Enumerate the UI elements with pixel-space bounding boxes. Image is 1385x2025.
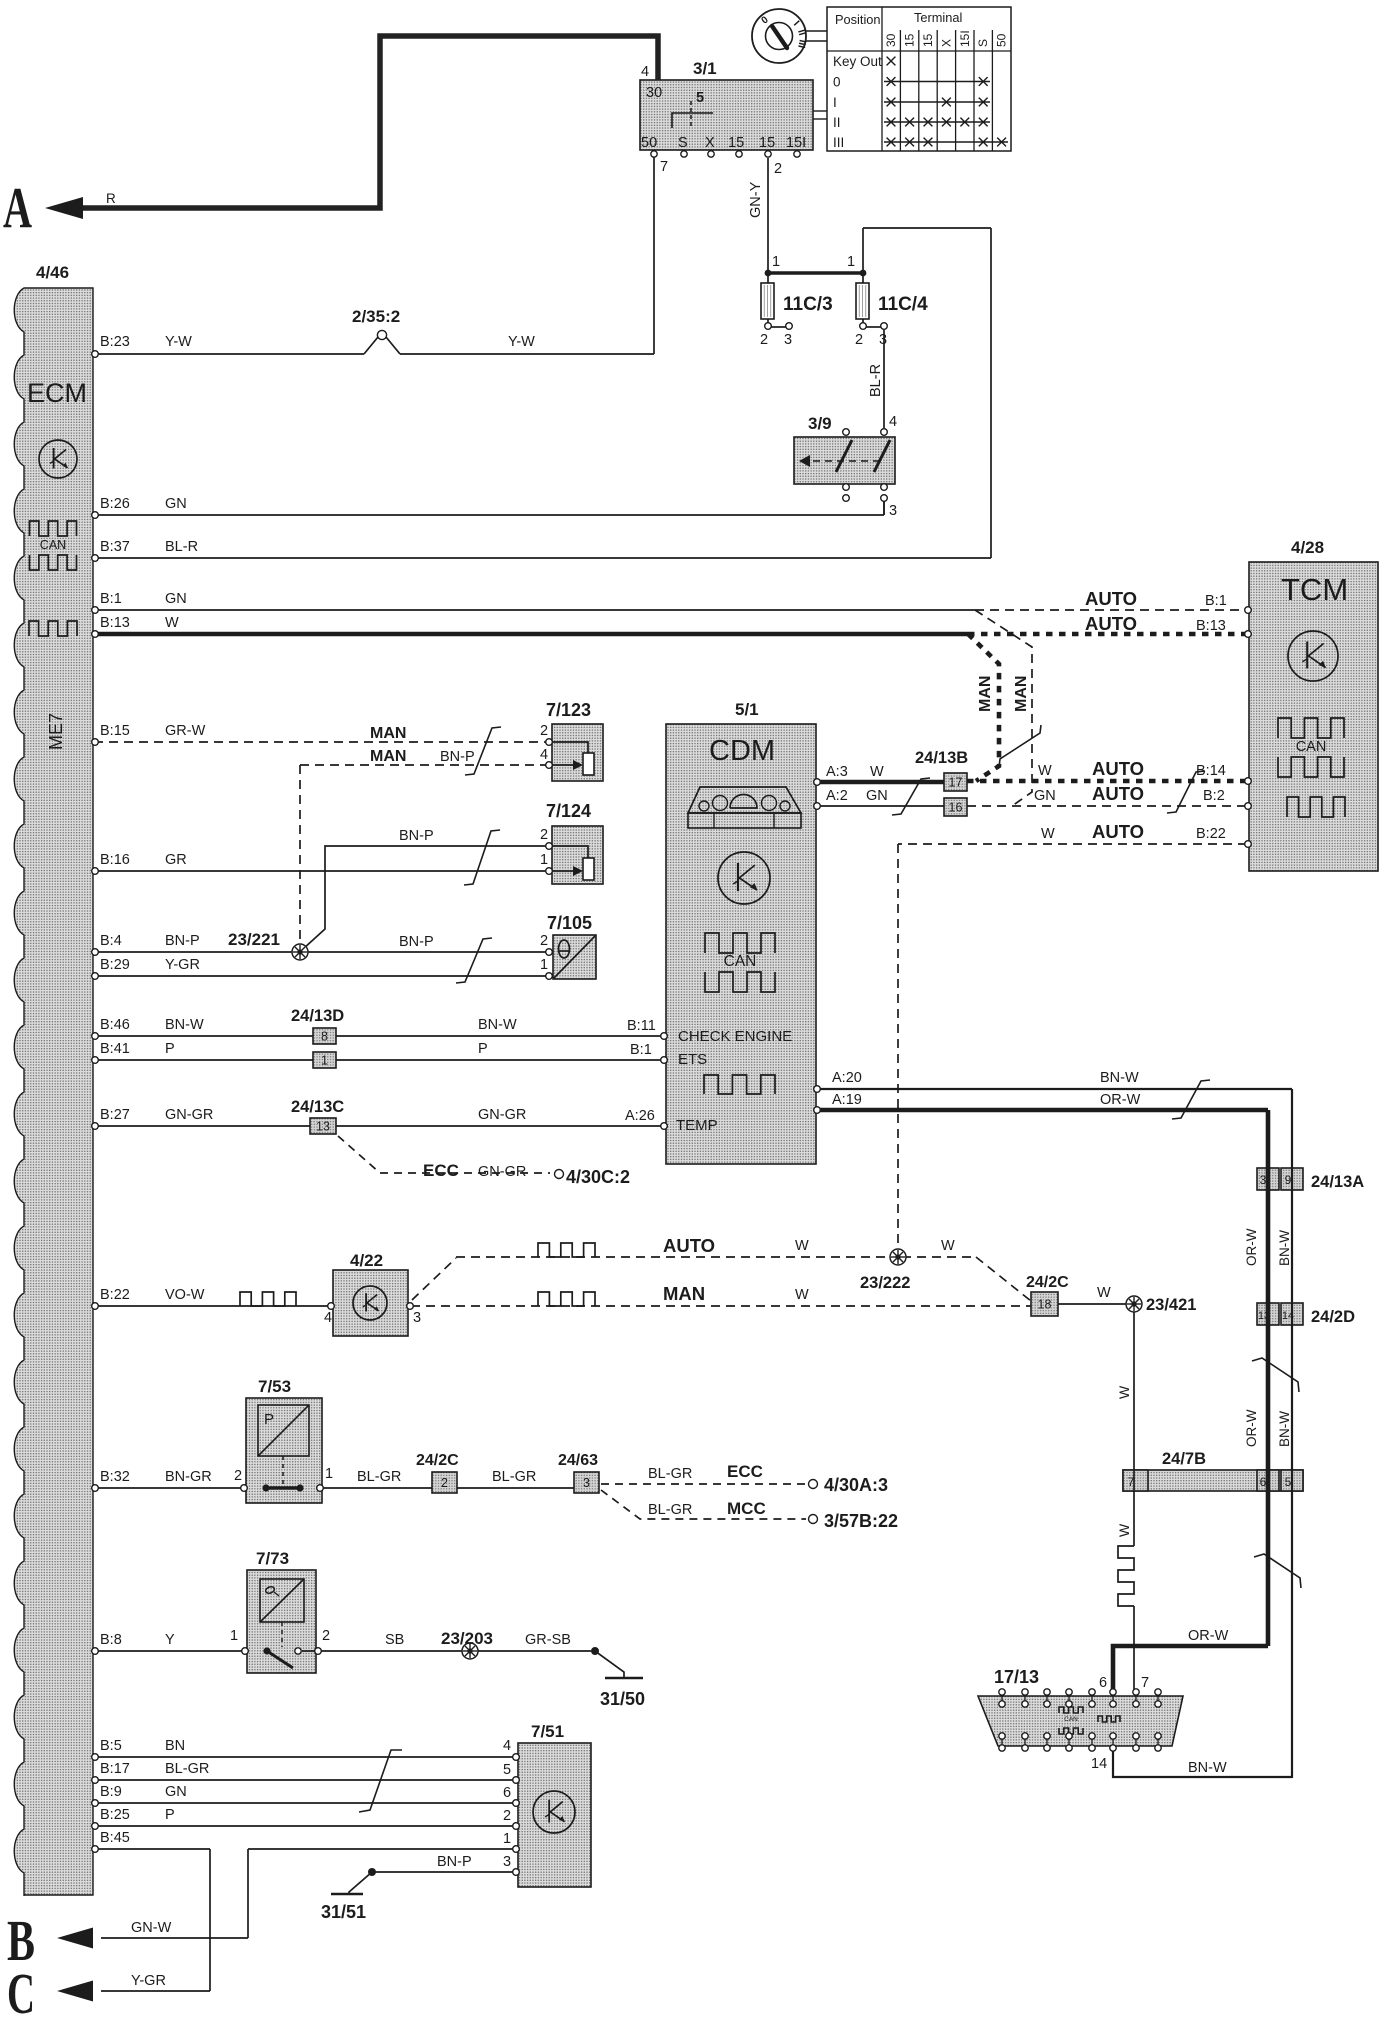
svg-text:50: 50 [995,33,1009,47]
svg-text:5: 5 [1285,1475,1292,1489]
svg-text:B:25: B:25 [100,1807,130,1823]
svg-text:ECC: ECC [727,1462,763,1481]
svg-text:24/13C: 24/13C [291,1098,344,1116]
svg-text:15: 15 [759,135,775,151]
svg-text:1: 1 [847,254,855,270]
svg-text:2/35:2: 2/35:2 [352,307,400,326]
svg-text:CAN: CAN [40,538,66,552]
svg-text:1: 1 [325,1466,333,1482]
svg-text:24/2C: 24/2C [416,1452,459,1469]
svg-text:B:16: B:16 [100,852,130,868]
svg-text:3: 3 [784,332,792,348]
svg-text:B:14: B:14 [1196,763,1226,779]
svg-text:BL-GR: BL-GR [648,1466,692,1482]
svg-text:BN: BN [165,1738,185,1754]
svg-text:GN-W: GN-W [131,1920,172,1936]
svg-text:4: 4 [889,414,897,430]
svg-text:3: 3 [879,332,887,348]
svg-text:4/46: 4/46 [36,263,69,282]
svg-text:4: 4 [641,64,649,80]
svg-text:15: 15 [921,33,935,47]
svg-text:6: 6 [1260,1475,1267,1489]
svg-text:AUTO: AUTO [1085,588,1137,609]
svg-text:W: W [165,615,179,631]
svg-text:B:46: B:46 [100,1017,130,1033]
svg-text:B:5: B:5 [100,1738,122,1754]
svg-text:B:32: B:32 [100,1469,130,1485]
svg-text:17: 17 [949,776,963,790]
svg-text:GR-W: GR-W [165,723,206,739]
svg-text:CAN: CAN [1296,739,1327,755]
svg-text:24/2D: 24/2D [1311,1308,1355,1326]
svg-text:S: S [678,135,688,151]
svg-text:SB: SB [385,1632,404,1648]
svg-text:24/13A: 24/13A [1311,1173,1364,1191]
svg-text:5: 5 [696,90,704,106]
svg-text:7: 7 [660,159,668,175]
svg-text:GN: GN [165,1784,187,1800]
svg-text:Y-GR: Y-GR [165,957,200,973]
svg-text:31/51: 31/51 [321,1902,366,1922]
svg-text:BN-W: BN-W [165,1017,204,1033]
svg-text:16: 16 [949,801,963,815]
svg-text:7/123: 7/123 [546,700,591,720]
svg-text:Key Out: Key Out [833,54,882,69]
svg-text:4/30A:3: 4/30A:3 [824,1475,888,1495]
svg-text:31/50: 31/50 [600,1689,645,1709]
svg-text:TCM: TCM [1281,572,1348,607]
svg-text:ME7: ME7 [46,713,66,750]
svg-text:MAN: MAN [370,725,406,742]
svg-text:B:1: B:1 [630,1042,652,1058]
svg-text:3/57B:22: 3/57B:22 [824,1511,898,1531]
svg-text:B:15: B:15 [100,723,130,739]
svg-text:GN-GR: GN-GR [478,1164,526,1180]
svg-text:7: 7 [1128,1475,1135,1489]
svg-text:7: 7 [1141,1675,1149,1691]
svg-text:4: 4 [540,747,548,763]
svg-text:B:1: B:1 [1205,593,1227,609]
svg-text:Position: Position [835,12,881,27]
svg-text:1: 1 [321,1054,328,1068]
svg-text:BN-W: BN-W [1277,1230,1292,1266]
svg-text:W: W [1097,1285,1111,1301]
svg-text:3: 3 [889,503,897,519]
svg-text:0: 0 [833,75,841,90]
svg-text:GR: GR [165,852,187,868]
svg-text:B:4: B:4 [100,933,122,949]
svg-text:R: R [106,191,116,206]
svg-text:W: W [941,1238,955,1254]
svg-text:B:27: B:27 [100,1107,130,1123]
svg-text:4: 4 [324,1310,332,1326]
svg-text:BN-P: BN-P [440,749,475,765]
svg-text:7/73: 7/73 [256,1549,289,1568]
svg-text:AUTO: AUTO [1092,821,1144,842]
svg-text:Y-GR: Y-GR [131,1973,166,1989]
svg-text:7/53: 7/53 [258,1377,291,1396]
svg-text:23/421: 23/421 [1146,1296,1196,1314]
svg-text:GR-SB: GR-SB [525,1632,571,1648]
svg-text:4: 4 [503,1738,511,1754]
svg-text:A: A [3,175,32,240]
svg-text:14: 14 [1282,1310,1294,1322]
svg-text:2: 2 [322,1628,330,1644]
svg-text:1: 1 [230,1628,238,1644]
svg-text:GN-GR: GN-GR [478,1107,526,1123]
svg-text:BL-R: BL-R [868,364,884,397]
svg-text:ETS: ETS [678,1051,707,1068]
svg-text:13: 13 [316,1120,330,1134]
svg-text:3: 3 [1260,1173,1267,1187]
svg-text:BN-W: BN-W [1100,1070,1139,1086]
svg-text:B:23: B:23 [100,334,130,350]
svg-text:BN-W: BN-W [1188,1760,1227,1776]
svg-text:B:13: B:13 [100,615,130,631]
svg-text:2: 2 [540,827,548,843]
svg-text:BN-P: BN-P [399,828,434,844]
svg-text:ECC: ECC [423,1161,459,1180]
svg-text:24/63: 24/63 [558,1452,598,1469]
svg-text:B:41: B:41 [100,1041,130,1057]
svg-text:OR-W: OR-W [1188,1628,1229,1644]
svg-text:1: 1 [540,852,548,868]
svg-text:15I: 15I [786,135,806,151]
svg-text:B:9: B:9 [100,1784,122,1800]
svg-text:30: 30 [884,33,898,47]
svg-text:7/51: 7/51 [531,1722,564,1741]
svg-text:AUTO: AUTO [663,1235,715,1256]
svg-text:BL-R: BL-R [165,539,198,555]
svg-text:23/222: 23/222 [860,1274,910,1292]
svg-text:X: X [939,39,953,47]
svg-text:BL-GR: BL-GR [648,1502,692,1518]
svg-text:24/2C: 24/2C [1026,1274,1069,1291]
svg-text:III: III [833,135,844,150]
svg-text:1: 1 [540,957,548,973]
svg-text:AUTO: AUTO [1085,613,1137,634]
svg-text:BN-P: BN-P [399,934,434,950]
svg-text:CDM: CDM [709,735,775,767]
svg-text:X: X [705,135,715,151]
svg-text:24/13B: 24/13B [915,749,968,767]
svg-text:18: 18 [1038,1298,1052,1312]
svg-text:OR-W: OR-W [1244,1409,1259,1447]
svg-text:BN-W: BN-W [478,1017,517,1033]
svg-text:P: P [478,1041,488,1057]
svg-text:B:26: B:26 [100,496,130,512]
svg-text:7/105: 7/105 [547,913,592,933]
svg-text:W: W [870,764,884,780]
svg-text:7/124: 7/124 [546,801,591,821]
svg-text:B:1: B:1 [100,591,122,607]
svg-text:1: 1 [772,254,780,270]
svg-text:13: 13 [1258,1310,1270,1322]
svg-text:8: 8 [321,1030,328,1044]
svg-text:15: 15 [903,33,917,47]
svg-text:1: 1 [503,1831,511,1847]
svg-text:BL-GR: BL-GR [357,1469,401,1485]
svg-text:AUTO: AUTO [1092,758,1144,779]
svg-text:Y: Y [165,1632,175,1648]
svg-text:2: 2 [441,1476,448,1490]
svg-text:P: P [165,1041,175,1057]
svg-text:15I: 15I [958,30,972,47]
svg-text:B:17: B:17 [100,1761,130,1777]
svg-text:MAN: MAN [370,748,406,765]
svg-text:BN-GR: BN-GR [165,1469,212,1485]
svg-text:14: 14 [1091,1756,1107,1772]
svg-text:GN: GN [165,591,187,607]
svg-text:W: W [795,1287,809,1303]
svg-text:24/7B: 24/7B [1162,1450,1206,1468]
svg-text:2: 2 [540,723,548,739]
svg-text:24/13D: 24/13D [291,1007,344,1025]
svg-text:B:13: B:13 [1196,618,1226,634]
svg-text:4/28: 4/28 [1291,538,1324,557]
svg-text:A:3: A:3 [826,764,848,780]
svg-text:Y-W: Y-W [508,334,535,350]
svg-text:B:2: B:2 [1203,788,1225,804]
svg-text:C: C [7,1961,35,2020]
svg-text:CHECK ENGINE: CHECK ENGINE [678,1028,792,1045]
svg-text:3: 3 [413,1310,421,1326]
svg-text:BN-P: BN-P [165,933,200,949]
svg-text:B:8: B:8 [100,1632,122,1648]
svg-text:A:2: A:2 [826,788,848,804]
svg-text:MCC: MCC [727,1499,766,1518]
svg-text:VO-W: VO-W [165,1287,205,1303]
svg-text:11C/3: 11C/3 [783,294,833,315]
svg-text:5: 5 [503,1762,511,1778]
svg-text:B:37: B:37 [100,539,130,555]
svg-text:30: 30 [646,85,662,101]
svg-text:2: 2 [774,161,782,177]
svg-text:B:45: B:45 [100,1830,130,1846]
svg-text:BL-GR: BL-GR [492,1469,536,1485]
svg-text:6: 6 [503,1785,511,1801]
svg-text:W: W [1116,1523,1132,1537]
svg-text:17/13: 17/13 [994,1667,1039,1687]
svg-text:W: W [1116,1385,1132,1399]
svg-text:15: 15 [728,135,744,151]
svg-text:50: 50 [641,135,657,151]
svg-text:B:29: B:29 [100,957,130,973]
svg-text:MAN: MAN [1013,676,1030,712]
svg-text:MAN: MAN [663,1283,705,1304]
svg-text:BN-P: BN-P [437,1854,472,1870]
svg-text:3/1: 3/1 [693,59,717,78]
svg-text:3/9: 3/9 [808,414,832,433]
svg-text:W: W [1041,826,1055,842]
svg-text:5/1: 5/1 [735,700,759,719]
svg-text:CAN: CAN [1064,1716,1078,1723]
svg-text:W: W [1038,763,1052,779]
svg-text:4/22: 4/22 [350,1251,383,1270]
svg-text:6: 6 [1099,1675,1107,1691]
svg-text:AUTO: AUTO [1092,783,1144,804]
svg-text:II: II [833,115,841,130]
svg-text:Y-W: Y-W [165,334,192,350]
svg-text:BL-GR: BL-GR [165,1761,209,1777]
svg-text:3: 3 [503,1854,511,1870]
svg-text:A:20: A:20 [832,1070,862,1086]
svg-text:B:11: B:11 [627,1018,656,1034]
svg-text:23/203: 23/203 [441,1629,493,1648]
svg-text:2: 2 [855,332,863,348]
svg-text:GN-Y: GN-Y [748,181,764,218]
svg-text:OR-W: OR-W [1100,1092,1141,1108]
svg-text:4/30C:2: 4/30C:2 [566,1167,630,1187]
svg-text:CAN: CAN [724,953,757,970]
svg-text:GN-GR: GN-GR [165,1107,213,1123]
svg-text:P: P [264,1411,274,1428]
svg-text:W: W [795,1238,809,1254]
svg-text:GN: GN [866,788,888,804]
svg-text:GN: GN [165,496,187,512]
svg-text:11C/4: 11C/4 [878,294,928,315]
svg-text:Terminal: Terminal [914,10,962,25]
svg-text:ECM: ECM [27,378,87,408]
svg-text:S: S [976,39,990,47]
svg-text:2: 2 [503,1808,511,1824]
svg-text:GN: GN [1034,788,1056,804]
svg-text:2: 2 [234,1468,242,1484]
svg-text:A:19: A:19 [832,1092,862,1108]
svg-text:P: P [165,1807,175,1823]
svg-text:2: 2 [760,332,768,348]
svg-text:BN-W: BN-W [1277,1411,1292,1447]
svg-text:2: 2 [540,933,548,949]
svg-text:MAN: MAN [977,676,994,712]
svg-text:B:22: B:22 [1196,826,1226,842]
svg-text:9: 9 [1285,1173,1292,1187]
svg-text:3: 3 [583,1476,590,1490]
svg-text:A:26: A:26 [625,1108,655,1124]
svg-text:23/221: 23/221 [228,930,280,949]
svg-text:OR-W: OR-W [1244,1228,1259,1266]
svg-text:B:22: B:22 [100,1287,130,1303]
svg-text:TEMP: TEMP [676,1117,718,1134]
svg-text:I: I [833,95,837,110]
